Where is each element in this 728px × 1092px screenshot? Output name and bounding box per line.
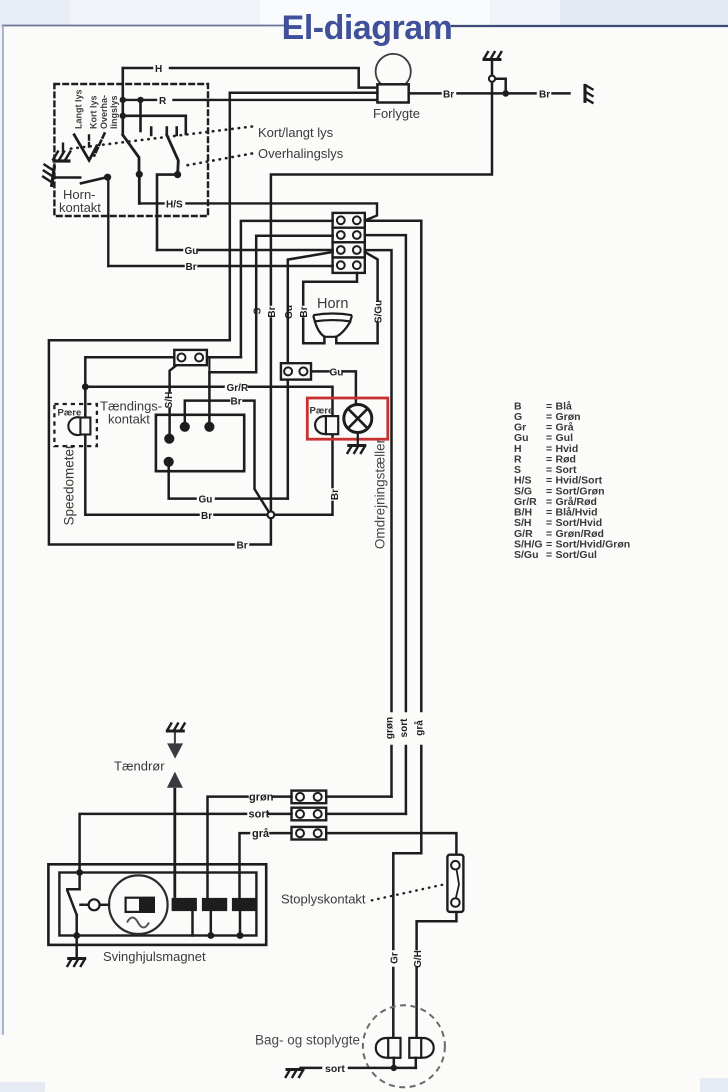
svg-text:Gu: Gu	[330, 368, 344, 379]
svg-text:Br: Br	[299, 306, 310, 317]
svg-text:Gr/R: Gr/R	[227, 383, 249, 394]
svg-text:Br: Br	[267, 306, 278, 317]
svg-text:grøn: grøn	[384, 717, 395, 739]
svg-text:S: S	[252, 307, 263, 314]
svg-text:kontakt: kontakt	[59, 200, 101, 215]
svg-text:Kort/langt lys: Kort/langt lys	[258, 125, 334, 140]
svg-text:grå: grå	[252, 828, 270, 840]
svg-text:Svinghjulsmagnet: Svinghjulsmagnet	[103, 949, 206, 964]
svg-text:Kort lys: Kort lys	[88, 95, 98, 129]
svg-text:Gu: Gu	[199, 495, 213, 506]
svg-text:R: R	[159, 96, 167, 107]
svg-text:sort: sort	[249, 809, 270, 821]
svg-text:S/H: S/H	[164, 392, 175, 409]
svg-text:Pære: Pære	[310, 406, 334, 417]
svg-text:G/H: G/H	[413, 950, 424, 968]
svg-text:Bag- og stoplygte: Bag- og stoplygte	[255, 1033, 360, 1048]
svg-text:Stoplyskontakt: Stoplyskontakt	[281, 892, 366, 907]
svg-text:Overhalingslys: Overhalingslys	[258, 146, 344, 161]
svg-text:Tændrør: Tændrør	[114, 759, 165, 774]
svg-text:Speedometer: Speedometer	[62, 444, 77, 526]
svg-text:Br: Br	[231, 397, 242, 408]
svg-text:Overha-: Overha-	[99, 95, 109, 129]
svg-text:Br: Br	[443, 90, 454, 101]
svg-text:Gr: Gr	[389, 952, 400, 964]
svg-text:grøn: grøn	[249, 791, 274, 803]
svg-text:Br: Br	[201, 511, 212, 522]
svg-text:S/Gu: S/Gu	[373, 300, 384, 323]
svg-text:lingslys: lingslys	[109, 95, 119, 129]
svg-text:Br: Br	[237, 541, 248, 552]
svg-text:Horn: Horn	[317, 296, 348, 312]
svg-text:grå: grå	[413, 720, 425, 736]
svg-text:Br: Br	[539, 90, 550, 101]
svg-text:Gu: Gu	[284, 305, 295, 319]
svg-text:kontakt: kontakt	[108, 412, 150, 427]
svg-text:Omdrejningstæller: Omdrejningstæller	[372, 438, 387, 549]
svg-text:Br: Br	[186, 262, 197, 273]
svg-text:Br: Br	[330, 489, 341, 500]
svg-text:=: =	[546, 549, 552, 561]
svg-text:Langt lys: Langt lys	[73, 89, 83, 129]
svg-text:H: H	[155, 64, 162, 75]
svg-text:Sort/Gul: Sort/Gul	[556, 549, 597, 561]
svg-text:Forlygte: Forlygte	[373, 106, 420, 121]
svg-text:sort: sort	[399, 718, 410, 738]
svg-text:sort: sort	[325, 1063, 345, 1075]
svg-text:S/Gu: S/Gu	[514, 549, 539, 561]
svg-text:El-diagram: El-diagram	[282, 9, 453, 47]
svg-text:H/S: H/S	[166, 200, 183, 211]
svg-text:Gu: Gu	[185, 246, 199, 257]
